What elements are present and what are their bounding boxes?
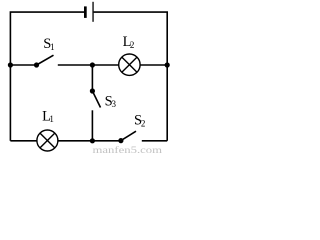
wire S3 branch lower xyxy=(91,110,93,141)
wire right vertical lower half xyxy=(166,65,168,141)
wire S1 to L2 xyxy=(58,64,119,66)
wire middle left segment xyxy=(10,64,36,66)
lamp L2 xyxy=(119,54,140,75)
switch S3 xyxy=(90,88,101,107)
wire battery to top-right corner xyxy=(94,12,168,65)
lamp L1 xyxy=(37,130,58,151)
node C: right middle junction xyxy=(165,62,170,67)
wire L2 to right junction xyxy=(140,64,167,66)
wire bottom left to L1 xyxy=(10,140,37,142)
node A: left middle junction xyxy=(8,62,13,67)
wire S2 to bottom-right corner xyxy=(142,140,167,142)
wire left vertical lower half xyxy=(9,65,11,141)
node D: S3 bottom junction xyxy=(90,138,95,143)
wire L1 to S2 xyxy=(58,140,121,142)
node B: S3 top junction xyxy=(90,62,95,67)
wire top-left to battery xyxy=(10,12,84,65)
switch S2 xyxy=(118,131,136,143)
svg-text:manfen5.com: manfen5.com xyxy=(93,145,163,154)
battery B1 xyxy=(84,2,94,22)
switch S1 xyxy=(34,55,54,67)
wire S3 branch upper xyxy=(91,65,93,91)
